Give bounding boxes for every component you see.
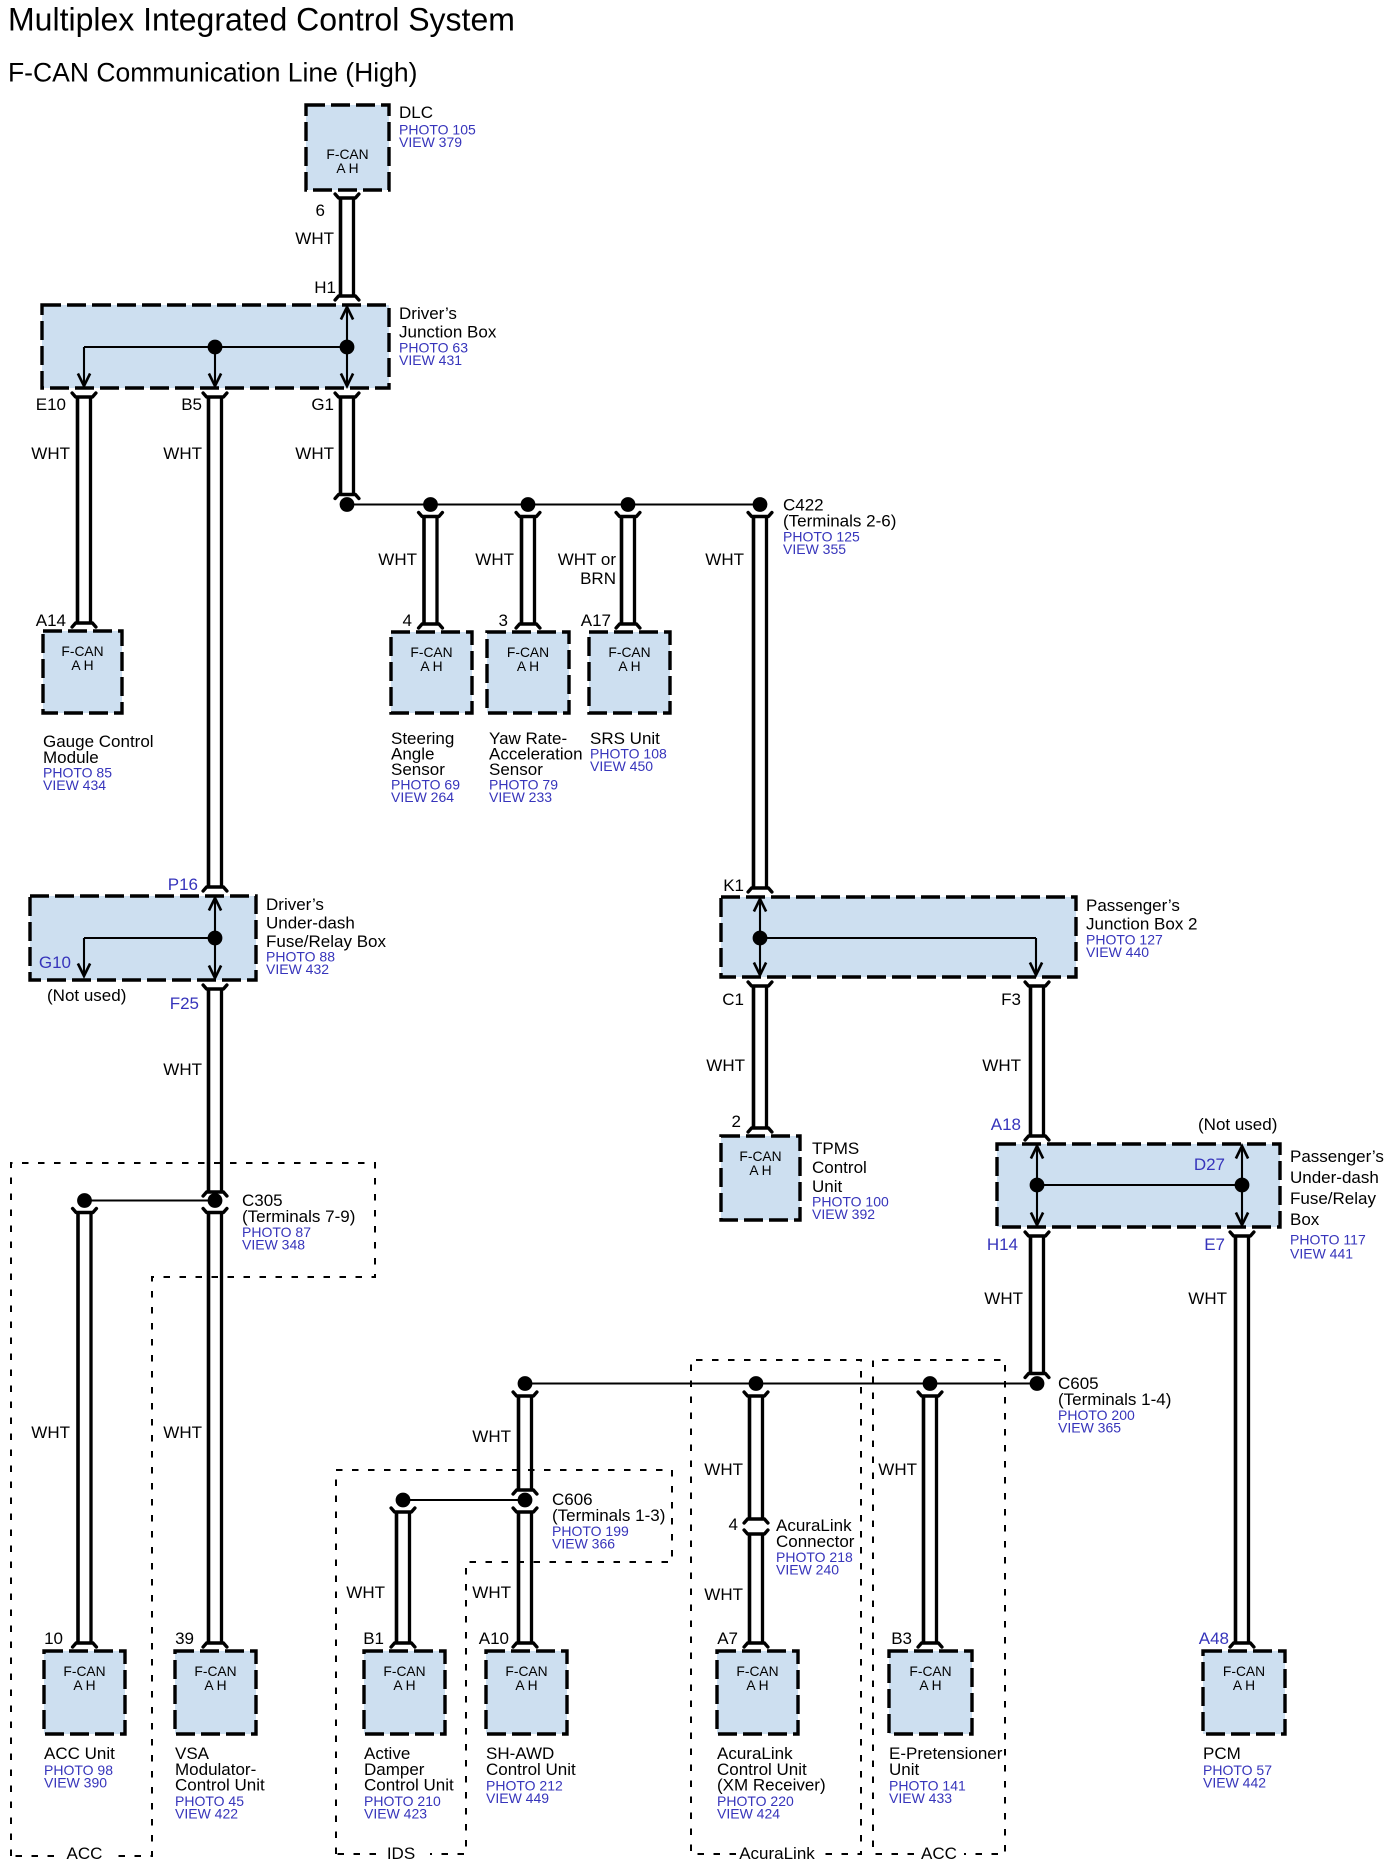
wire to Steering Angle Sensor — [419, 513, 443, 629]
internal wire PUFRB vertical D27-E7 — [1236, 1146, 1248, 1225]
connector box Active Damper Control Unit — [364, 1651, 445, 1734]
svg-text:F-CAN: F-CAN — [608, 645, 650, 660]
svg-text:VIEW 264: VIEW 264 — [391, 789, 454, 805]
svg-text:VIEW 422: VIEW 422 — [175, 1806, 238, 1822]
svg-text:F-CAN: F-CAN — [194, 1664, 236, 1679]
connector box E-Pretensioner Unit — [889, 1651, 972, 1734]
junction dot SH-AWD tap — [518, 1376, 533, 1391]
svg-text:F-CAN: F-CAN — [505, 1664, 547, 1679]
svg-text:ACC Unit: ACC Unit — [44, 1744, 115, 1763]
junction dot AcuraLink tap — [749, 1376, 764, 1391]
subtitle — [8, 58, 417, 88]
svg-text:VIEW 348: VIEW 348 — [242, 1237, 305, 1253]
wire color WHT (VSA) — [163, 1423, 202, 1442]
svg-text:WHT: WHT — [31, 444, 70, 463]
svg-text:B1: B1 — [363, 1629, 384, 1648]
junction dot C606 right — [518, 1493, 533, 1508]
svg-text:E7: E7 — [1204, 1235, 1225, 1254]
label C305 — [242, 1191, 355, 1253]
pin G10 — [39, 953, 71, 972]
svg-text:F-CAN Communication Line (High: F-CAN Communication Line (High) — [8, 58, 417, 88]
internal wire PJB2 vertical K1-C1 — [754, 899, 766, 975]
svg-text:F-CAN: F-CAN — [326, 147, 368, 162]
svg-text:F3: F3 — [1001, 990, 1021, 1009]
svg-text:VIEW 355: VIEW 355 — [783, 541, 846, 557]
junction dot PJB2 — [753, 931, 768, 946]
junction dot SRS tap — [621, 497, 636, 512]
svg-text:Driver’s: Driver’s — [266, 895, 324, 914]
svg-text:WHT or: WHT or — [558, 550, 617, 569]
svg-text:Unit: Unit — [889, 1760, 920, 1779]
pin 4 (AcuraLink connector) — [729, 1515, 738, 1534]
svg-text:39: 39 — [175, 1629, 194, 1648]
pin F3 — [1001, 990, 1021, 1009]
svg-text:DLC: DLC — [399, 103, 433, 122]
label Active Damper Control Unit — [364, 1744, 454, 1822]
svg-text:WHT: WHT — [706, 1056, 745, 1075]
group label ACC (right) — [921, 1844, 957, 1863]
junction dot G1 tap — [340, 497, 355, 512]
internal wire DUFRB vertical P16-F25 — [209, 898, 221, 978]
pin K1 — [723, 876, 744, 895]
wire H14 to C605 — [1025, 1232, 1049, 1378]
title — [8, 2, 515, 38]
svg-text:VIEW 392: VIEW 392 — [812, 1206, 875, 1222]
pin C1 — [722, 990, 744, 1009]
wire E10 to A14 — [72, 393, 96, 627]
svg-text:WHT: WHT — [163, 1423, 202, 1442]
svg-text:Fuse/Relay: Fuse/Relay — [1290, 1189, 1376, 1208]
label C422 — [783, 496, 896, 558]
wire AcuraLink connector to A7 — [744, 1534, 768, 1647]
internal wire DJB horizontal — [84, 346, 347, 348]
svg-text:F-CAN: F-CAN — [507, 645, 549, 660]
svg-text:F-CAN: F-CAN — [739, 1149, 781, 1164]
label ACC Unit — [44, 1744, 115, 1791]
svg-text:WHT: WHT — [982, 1056, 1021, 1075]
label C606 — [552, 1490, 665, 1552]
svg-text:ACC: ACC — [921, 1844, 957, 1863]
svg-text:WHT: WHT — [295, 444, 334, 463]
svg-text:A10: A10 — [479, 1629, 509, 1648]
wire color WHT (Active Damper) — [346, 1583, 385, 1602]
svg-text:Control: Control — [812, 1158, 867, 1177]
svg-text:WHT: WHT — [475, 550, 514, 569]
pin E7 — [1204, 1235, 1225, 1254]
svg-text:2: 2 — [732, 1112, 741, 1131]
svg-text:WHT: WHT — [878, 1460, 917, 1479]
connector box SRS Unit — [589, 632, 670, 713]
wire color WHT (F25) — [163, 1060, 202, 1079]
svg-text:VIEW 432: VIEW 432 — [266, 961, 329, 977]
svg-text:Multiplex Integrated Control S: Multiplex Integrated Control System — [8, 2, 515, 38]
wire color WHT (C606 upper) — [472, 1427, 511, 1446]
pin A14 — [36, 611, 66, 630]
svg-text:F-CAN: F-CAN — [63, 1664, 105, 1679]
group outline AcuraLink — [691, 1360, 861, 1854]
label Yaw Rate-Acceleration Sensor — [489, 729, 583, 805]
label Gauge Control Module — [43, 732, 154, 793]
label TPMS Control Unit — [812, 1139, 889, 1222]
connector box VSA Modulator-Control Unit — [175, 1651, 256, 1734]
svg-text:VIEW 442: VIEW 442 — [1203, 1775, 1266, 1791]
pin G1 — [311, 395, 334, 414]
pin E10 — [36, 395, 66, 414]
internal wire PUFRB vertical A18-H14 — [1031, 1146, 1043, 1225]
pin A17 — [581, 611, 611, 630]
group label ACC (left) — [67, 1844, 103, 1863]
svg-text:A H: A H — [204, 1678, 226, 1693]
junction dot C606 left — [396, 1493, 411, 1508]
svg-text:A17: A17 — [581, 611, 611, 630]
wire F25 to C305 — [203, 985, 227, 1196]
svg-text:VIEW 366: VIEW 366 — [552, 1536, 615, 1552]
pin A10 — [479, 1629, 509, 1648]
junction dot E-Pretensioner tap — [923, 1376, 938, 1391]
label Driver's Junction Box — [399, 304, 497, 368]
svg-text:A H: A H — [336, 161, 358, 176]
svg-text:E10: E10 — [36, 395, 66, 414]
svg-text:A H: A H — [73, 1678, 95, 1693]
svg-text:4: 4 — [729, 1515, 738, 1534]
wire bus to E-Pretensioner B3 — [918, 1392, 942, 1647]
pin A18 — [991, 1115, 1021, 1134]
wire bus C605 — [525, 1382, 1037, 1384]
label Passenger's Junction Box 2 — [1086, 896, 1198, 960]
pin B1 — [363, 1629, 384, 1648]
svg-text:K1: K1 — [723, 876, 744, 895]
junction dot PUFRB at D27 — [1235, 1178, 1250, 1193]
svg-text:WHT: WHT — [705, 550, 744, 569]
svg-text:Under-dash: Under-dash — [1290, 1168, 1379, 1187]
svg-text:WHT: WHT — [1188, 1289, 1227, 1308]
connector box ACC Unit — [44, 1651, 125, 1734]
wire C422 to K1 — [748, 513, 772, 893]
svg-text:A H: A H — [515, 1678, 537, 1693]
junction box Driver's Junction Box — [42, 305, 389, 388]
wire link C305 — [85, 1199, 216, 1201]
connector AcuraLink inline lower cap — [744, 1530, 768, 1534]
junction box Driver's Under-dash Fuse/Relay Box — [30, 896, 256, 980]
pin 4 (steering) — [403, 611, 412, 630]
wire color WHT (DLC) — [295, 229, 334, 248]
svg-text:A H: A H — [919, 1678, 941, 1693]
svg-text:AcuraLink: AcuraLink — [739, 1844, 815, 1863]
connector box AcuraLink Control Unit — [717, 1651, 798, 1734]
junction box Passenger's Under-dash Fuse/Relay Box — [997, 1144, 1280, 1227]
svg-text:(Not used): (Not used) — [47, 986, 126, 1005]
svg-text:(Not used): (Not used) — [1198, 1115, 1277, 1134]
wire color WHT (C422-K1) — [705, 550, 744, 569]
svg-text:F-CAN: F-CAN — [383, 1664, 425, 1679]
wire link C606 — [403, 1499, 525, 1501]
svg-text:VIEW 433: VIEW 433 — [889, 1790, 952, 1806]
wire color WHT (E7) — [1188, 1289, 1227, 1308]
connector box Gauge Control Module — [43, 631, 122, 713]
svg-text:WHT: WHT — [163, 444, 202, 463]
internal wire DJB branch B5 — [209, 347, 221, 386]
wire C1 to TPMS pin2 — [748, 982, 772, 1132]
junction dot DJB at B5 — [208, 340, 223, 355]
svg-text:BRN: BRN — [580, 569, 616, 588]
svg-text:WHT: WHT — [704, 1585, 743, 1604]
wire color WHT (E-Pretensioner) — [878, 1460, 917, 1479]
junction dot DUFRB — [208, 931, 223, 946]
connector cap C606 right lower — [513, 1508, 537, 1512]
svg-text:A7: A7 — [717, 1629, 738, 1648]
label C605 — [1058, 1374, 1171, 1436]
svg-text:A H: A H — [746, 1678, 768, 1693]
wire bus to C606 — [513, 1392, 537, 1494]
wire F3 to A18 — [1025, 982, 1049, 1140]
junction dot C305 right — [208, 1193, 223, 1208]
pin 10 — [44, 1629, 63, 1648]
label E-Pretensioner Unit — [889, 1744, 1003, 1806]
svg-text:WHT: WHT — [984, 1289, 1023, 1308]
svg-text:P16: P16 — [168, 875, 198, 894]
group outline ACC (right) — [873, 1360, 1005, 1854]
svg-text:A H: A H — [420, 659, 442, 674]
svg-text:A14: A14 — [36, 611, 66, 630]
internal wire DUFRB horizontal — [84, 937, 215, 939]
svg-text:A H: A H — [71, 658, 93, 673]
wire E7 to PCM A48 — [1230, 1232, 1254, 1647]
pin A7 — [717, 1629, 738, 1648]
svg-text:3: 3 — [499, 611, 508, 630]
pin H1 — [314, 278, 336, 297]
svg-text:VIEW 233: VIEW 233 — [489, 789, 552, 805]
pin D27 — [1194, 1155, 1225, 1174]
svg-text:WHT: WHT — [295, 229, 334, 248]
wire color WHT (E10) — [31, 444, 70, 463]
pin 2 (TPMS) — [732, 1112, 741, 1131]
junction dot yaw tap — [521, 497, 536, 512]
svg-text:VIEW 449: VIEW 449 — [486, 1790, 549, 1806]
note not used D27 — [1198, 1115, 1277, 1134]
wire bus C422 — [347, 503, 760, 505]
svg-text:IDS: IDS — [387, 1844, 415, 1863]
svg-text:6: 6 — [316, 201, 325, 220]
svg-text:F25: F25 — [170, 994, 199, 1013]
pin 3 (yaw) — [499, 611, 508, 630]
wire C305 to VSA pin39 — [203, 1213, 227, 1648]
wire B5 to P16 — [203, 393, 227, 891]
junction dot C305 left — [77, 1193, 92, 1208]
label AcuraLink Control Unit — [717, 1744, 826, 1822]
svg-text:WHT: WHT — [472, 1427, 511, 1446]
pin 6 — [316, 201, 325, 220]
svg-text:10: 10 — [44, 1629, 63, 1648]
connector cap C606 left lower — [391, 1508, 415, 1512]
svg-text:C1: C1 — [722, 990, 744, 1009]
wire color WHT (G1) — [295, 444, 334, 463]
svg-text:Driver’s: Driver’s — [399, 304, 457, 323]
wire color WHT (AcuraLink upper) — [704, 1460, 743, 1479]
label Steering Angle Sensor — [391, 729, 460, 805]
svg-text:WHT: WHT — [704, 1460, 743, 1479]
pin F25 — [170, 994, 199, 1013]
connector cap C305 right lower — [203, 1209, 227, 1213]
svg-text:Control Unit: Control Unit — [486, 1760, 576, 1779]
svg-text:Control Unit: Control Unit — [364, 1776, 454, 1795]
wire bus to AcuraLink connector pin4 — [744, 1392, 768, 1523]
svg-text:F-CAN: F-CAN — [909, 1664, 951, 1679]
internal wire DJB vertical H1-G1 — [341, 307, 353, 386]
wire color WHT or BRN line1 — [558, 550, 617, 569]
svg-text:VIEW 379: VIEW 379 — [399, 134, 462, 150]
connector box DLC — [306, 105, 389, 190]
svg-text:Passenger’s: Passenger’s — [1086, 896, 1180, 915]
svg-text:WHT: WHT — [472, 1583, 511, 1602]
connector box TPMS Control Unit — [721, 1136, 800, 1220]
group label IDS — [387, 1844, 415, 1863]
svg-text:F-CAN: F-CAN — [1223, 1664, 1265, 1679]
internal wire PJB2 branch F3 — [1030, 938, 1042, 975]
svg-text:TPMS: TPMS — [812, 1139, 859, 1158]
wire DLC pin6 to H1 — [335, 194, 359, 300]
pin B5 — [181, 395, 202, 414]
svg-text:F-CAN: F-CAN — [61, 644, 103, 659]
group label AcuraLink — [739, 1844, 815, 1863]
svg-text:WHT: WHT — [31, 1423, 70, 1442]
svg-text:Control Unit: Control Unit — [175, 1776, 265, 1795]
label AcuraLink Connector — [776, 1516, 855, 1578]
svg-text:G1: G1 — [311, 395, 334, 414]
connector box Steering Angle Sensor — [391, 632, 472, 713]
wire C606 to Active Damper B1 — [391, 1512, 415, 1647]
svg-text:B3: B3 — [891, 1629, 912, 1648]
internal wire PUFRB horizontal — [1037, 1184, 1242, 1186]
label PCM — [1203, 1744, 1272, 1791]
label SRS Unit — [590, 729, 667, 774]
svg-text:A H: A H — [1233, 1678, 1255, 1693]
svg-text:D27: D27 — [1194, 1155, 1225, 1174]
svg-text:F-CAN: F-CAN — [736, 1664, 778, 1679]
svg-text:VIEW 240: VIEW 240 — [776, 1562, 839, 1578]
svg-text:VIEW 440: VIEW 440 — [1086, 944, 1149, 960]
connector cap C305 left lower — [73, 1209, 97, 1213]
connector box PCM — [1203, 1651, 1285, 1734]
svg-text:Box: Box — [1290, 1210, 1320, 1229]
svg-text:VIEW 423: VIEW 423 — [364, 1806, 427, 1822]
pin B3 — [891, 1629, 912, 1648]
wire color WHT (ACC) — [31, 1423, 70, 1442]
svg-text:A H: A H — [749, 1163, 771, 1178]
svg-text:(XM Receiver): (XM Receiver) — [717, 1776, 826, 1795]
svg-text:PCM: PCM — [1203, 1744, 1241, 1763]
pin A48 — [1199, 1629, 1229, 1648]
svg-text:H14: H14 — [987, 1235, 1018, 1254]
wire color WHT (F3) — [982, 1056, 1021, 1075]
wire G1 to C422 bus — [335, 393, 359, 499]
label DLC — [399, 103, 476, 150]
internal wire DUFRB branch G10 — [78, 938, 90, 976]
note not used G10 — [47, 986, 126, 1005]
pin H14 — [987, 1235, 1018, 1254]
svg-text:VIEW 434: VIEW 434 — [43, 777, 106, 793]
junction dot DJB at G1 — [340, 340, 355, 355]
wire color WHT (C1) — [706, 1056, 745, 1075]
wire color WHT (yaw) — [475, 550, 514, 569]
svg-text:VIEW 450: VIEW 450 — [590, 758, 653, 774]
label SH-AWD Control Unit — [486, 1744, 576, 1806]
pin 39 — [175, 1629, 194, 1648]
svg-text:WHT: WHT — [378, 550, 417, 569]
svg-text:A H: A H — [517, 659, 539, 674]
wire color WHT (B5) — [163, 444, 202, 463]
wire to Yaw Rate-Acceleration Sensor — [516, 513, 540, 629]
svg-text:ACC: ACC — [67, 1844, 103, 1863]
internal wire DJB branch E10 — [78, 347, 90, 386]
label VSA Modulator-Control Unit — [175, 1744, 265, 1822]
wire color WHT (H14) — [984, 1289, 1023, 1308]
wire color WHT (AcuraLink lower) — [704, 1585, 743, 1604]
svg-text:WHT: WHT — [346, 1583, 385, 1602]
internal wire PJB2 horizontal — [760, 937, 1036, 939]
wire C305 to ACC pin10 — [73, 1213, 97, 1648]
svg-text:A H: A H — [393, 1678, 415, 1693]
svg-text:WHT: WHT — [163, 1060, 202, 1079]
svg-text:A48: A48 — [1199, 1629, 1229, 1648]
wire C606 to SH-AWD A10 — [513, 1512, 537, 1647]
svg-text:VIEW 431: VIEW 431 — [399, 352, 462, 368]
junction dot C605 — [1030, 1376, 1045, 1391]
wire to SRS Unit — [616, 513, 640, 629]
svg-text:Passenger’s: Passenger’s — [1290, 1147, 1384, 1166]
svg-text:VIEW 441: VIEW 441 — [1290, 1246, 1353, 1262]
svg-text:F-CAN: F-CAN — [410, 645, 452, 660]
group outline ACC (left) — [11, 1163, 375, 1856]
wire color BRN line2 — [580, 569, 616, 588]
junction dot C422 — [753, 497, 768, 512]
wire color WHT (SH-AWD) — [472, 1583, 511, 1602]
label Driver's Under-dash Fuse/Relay Box — [266, 895, 386, 977]
svg-text:Under-dash: Under-dash — [266, 914, 355, 933]
wire color WHT (steering) — [378, 550, 417, 569]
svg-text:VIEW 424: VIEW 424 — [717, 1806, 780, 1822]
connector box SH-AWD Control Unit — [486, 1651, 567, 1734]
junction box Passenger's Junction Box 2 — [721, 897, 1076, 977]
svg-text:G10: G10 — [39, 953, 71, 972]
svg-text:A18: A18 — [991, 1115, 1021, 1134]
svg-text:B5: B5 — [181, 395, 202, 414]
svg-text:VIEW 365: VIEW 365 — [1058, 1420, 1121, 1436]
svg-text:A H: A H — [618, 659, 640, 674]
group outline IDS — [336, 1470, 672, 1854]
junction dot steering tap — [423, 497, 438, 512]
svg-text:VIEW 390: VIEW 390 — [44, 1775, 107, 1791]
label Passenger's Under-dash Fuse/Relay Box — [1290, 1147, 1384, 1262]
svg-text:4: 4 — [403, 611, 412, 630]
svg-text:H1: H1 — [314, 278, 336, 297]
junction dot PUFRB at A18 — [1030, 1178, 1045, 1193]
connector box Yaw Rate-Acceleration Sensor — [487, 632, 569, 713]
pin P16 — [168, 875, 198, 894]
